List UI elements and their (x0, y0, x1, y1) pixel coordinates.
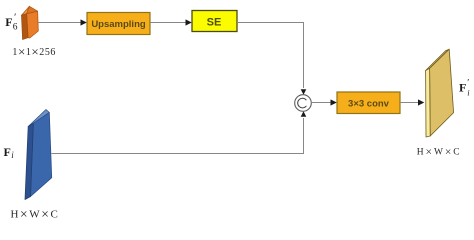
svg-text:Upsampling: Upsampling (91, 19, 146, 30)
feature map Fi (blue slab) (25, 110, 52, 200)
arrowhead into concat top (301, 89, 307, 95)
arrowhead into concat bottom (301, 111, 307, 117)
arrowhead into F'i (418, 99, 424, 105)
svg-text:6: 6 (13, 22, 18, 32)
arrowhead into SE (186, 19, 192, 25)
svg-text:H×W×C: H×W×C (417, 146, 462, 158)
wire concat to 3x3 conv (311, 102, 331, 104)
svg-text:3×3 conv: 3×3 conv (348, 99, 390, 110)
svg-text:F: F (5, 15, 12, 29)
label F'i (459, 79, 470, 98)
svg-text:H×W×C: H×W×C (11, 207, 60, 220)
wire 3x3 conv to F'i (400, 102, 419, 104)
block Upsampling (87, 13, 150, 35)
svg-text:SE: SE (207, 17, 222, 29)
block SE (192, 11, 237, 32)
arrowhead into Upsampling (81, 19, 87, 25)
label Fi (4, 145, 15, 160)
wire F'6 to Upsampling (39, 22, 82, 24)
svg-text:F: F (459, 81, 466, 95)
svg-text:1×1×256: 1×1×256 (12, 44, 56, 59)
svg-text:F: F (4, 145, 11, 159)
arrowhead into 3x3 conv (331, 99, 337, 105)
concat node C (295, 95, 312, 112)
label F'6 (5, 12, 17, 32)
feature map F'i (tan slab) (426, 49, 454, 137)
block 3x3 conv (337, 92, 400, 114)
feature map F'6 (orange slab) (22, 6, 39, 39)
wire Upsampling to SE (150, 22, 186, 24)
wire Fi to concat node (elbow) (52, 118, 304, 154)
wire SE to concat node (elbow) (237, 23, 304, 89)
